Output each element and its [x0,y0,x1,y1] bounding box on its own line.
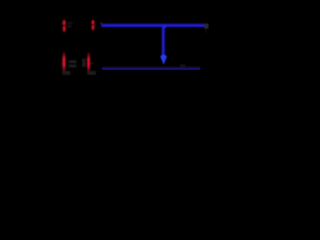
value label of C1 (dim text smudge) [67,22,72,24]
wire N2 (vertical net segment, bright blue) [161,27,163,58]
value label between C3 and C4 (dim smudge lower) [69,65,77,68]
attribute label left of C4 (dim smudge) [82,59,85,67]
capacitor C1 (top-left, red plates bar) [63,20,66,32]
capacitor C2 (top-right, red plates bar) [92,20,95,30]
arrowhead (down arrow onto bottom net) [160,54,167,64]
pin 1 of C3 (left stub) [61,63,63,65]
pin 2 of C2 (right stub) [94,24,97,25]
node A (junction bulge on top net) [162,25,166,29]
reference label between C3 and C4 (dim smudge upper) [69,60,77,63]
wire N1 (top horizontal net, bright blue) [101,23,204,25]
net label near right end of bottom net (faint) [180,65,185,67]
pin end cue of C2 (red dot at wire start) [101,22,103,24]
capacitor C4 (bottom-right, red plates bar) [87,52,90,74]
connector tail (faint vertical smear below pad) [205,28,207,33]
pin 2 of C4 (right stub) [90,63,94,65]
value label of C3 (dim text smudge below) [63,71,71,75]
reference label of C1 (dim text smudge) [67,26,71,28]
connector square (dark pad at right end of top net) [204,24,208,29]
value label of C4 (dim text smudge below) [88,71,96,75]
wire N3 (bottom horizontal net, dim blue) [102,66,200,68]
capacitor C3 (bottom-left, red plates bar) [62,52,65,74]
pin 1 of C1 (left stub) [61,23,63,24]
